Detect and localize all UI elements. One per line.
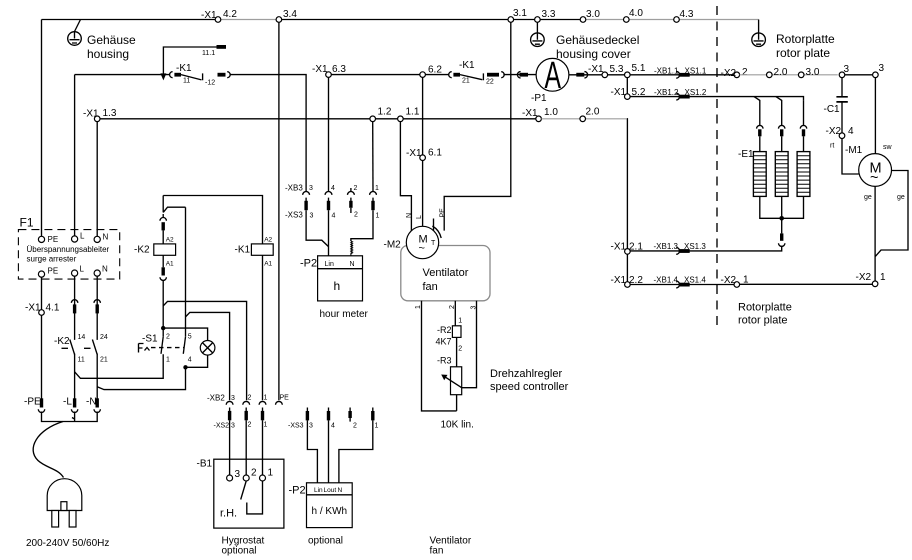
lamp [200,341,215,356]
node junction 11.1 branch [160,73,166,80]
contactor K2 main contact 24-21 [92,340,97,355]
wire XB3:4 from 6.3 [328,77,330,191]
svg-text:rotor plate: rotor plate [738,315,788,327]
node 3.1 [508,17,514,23]
svg-text:3: 3 [231,423,235,430]
svg-text:N: N [406,213,413,218]
connector -XB1.4/XS1.4 [676,281,679,288]
svg-text:1.2: 1.2 [378,107,392,118]
wire left PE drop from top rail [41,20,43,237]
node 4.0 [624,17,630,23]
wire K1-11 row [75,75,307,191]
hygrostat -B1 box [214,459,284,528]
svg-text:3.0: 3.0 [586,9,600,20]
wire fan pin3 to R3 wiper [462,301,477,388]
terminal -X1:5.1 [625,72,631,78]
svg-text:-X2: -X2 [826,126,842,137]
svg-text:2: 2 [354,185,358,192]
ground Rotorplatte rotor plate [758,20,760,33]
svg-text:200-240V 50/60Hz: 200-240V 50/60Hz [26,538,109,549]
svg-text:6.3: 6.3 [332,64,346,75]
hour meter -P2 [318,256,363,301]
terminal -X2:4 [839,133,845,139]
node 1.1 [398,116,404,122]
svg-text:-X1: -X1 [406,148,422,159]
ground Gehaeuse housing [75,20,81,32]
svg-text:N: N [350,261,355,268]
svg-text:Drehzahlregler: Drehzahlregler [490,368,562,380]
connector inline below K2 coil [162,255,164,267]
heater -E1 element 1 [753,152,766,197]
wire L branch to S1 contact 1 [75,354,164,378]
wire grey 1.0 to 2.0 to corner [541,118,627,120]
switch B1 humidity contact [241,481,247,500]
svg-text:4: 4 [331,185,335,192]
svg-text:1: 1 [880,272,886,283]
svg-text:2: 2 [449,305,456,309]
svg-text:-XS3: -XS3 [288,423,304,430]
wire N branch to lamp/S1 contact 4 [97,367,185,389]
terminal -X1:1.0 [536,116,542,122]
svg-text:fan: fan [430,546,444,557]
svg-text:4.1: 4.1 [46,303,60,314]
svg-text:3: 3 [844,64,850,75]
terminal -X1:5.3 [602,72,608,78]
terminal F1 N bottom [94,270,100,276]
wire lamp feed [163,328,207,341]
svg-text:-X2: -X2 [721,275,737,286]
node 2.0 [580,116,586,122]
svg-text:3: 3 [309,185,313,192]
kwh meter -P2 optional [307,483,353,528]
svg-text:1.3: 1.3 [103,108,117,119]
svg-text:1: 1 [743,275,749,286]
wire 2.2 row to -X2:1 to motor return [630,283,872,285]
svg-text:2: 2 [458,346,462,353]
terminal -X1:5.2 [625,94,631,100]
svg-text:XS1.2: XS1.2 [685,88,707,97]
svg-text:4: 4 [188,357,192,364]
terminal -X2:1 right [872,281,878,287]
svg-text:1: 1 [264,422,268,429]
wire sw lead to motor M1 [874,78,876,154]
svg-text:11: 11 [78,357,85,364]
wire N lead M2 from 1.1 [400,122,411,231]
terminal -X1:6.1 [420,155,426,161]
svg-text:N: N [102,265,108,274]
wire 5.1 to XB1.1 to -X2:2 [630,74,734,76]
node 3.4 [276,17,282,23]
terminal F1 PE bottom [38,271,44,277]
node 3.0 [798,72,804,78]
wire ge leads below motor M1 [875,171,908,281]
svg-text:A2: A2 [264,237,272,244]
svg-text:XS1.4: XS1.4 [684,276,706,285]
wire vertical 5.1 to 5.2 [626,78,628,94]
svg-text:3: 3 [471,306,478,310]
svg-text:3: 3 [879,63,885,74]
svg-text:11.1: 11.1 [202,50,215,57]
svg-text:L: L [416,215,423,219]
svg-text:-R2: -R2 [437,325,452,335]
terminal -X1:1.3 [94,116,100,122]
connector inline on L line [71,300,77,303]
svg-text:-XB1.1: -XB1.1 [654,67,679,76]
svg-text:6.1: 6.1 [428,148,442,159]
connector inline above K2 coil [160,218,166,221]
svg-text:3.0: 3.0 [806,67,820,78]
svg-text:11: 11 [183,78,190,85]
svg-text:rt: rt [830,143,834,150]
svg-text:22: 22 [486,79,494,86]
svg-text:PE: PE [280,395,290,402]
terminal F1 PE top [38,236,44,242]
svg-text:Rotorplatte: Rotorplatte [738,302,792,314]
connector pin after ammeter [576,73,584,77]
resistor -R2 4K7 [452,326,461,338]
wire mains bus [42,412,98,422]
connector -XS3 pins (optional meter) [306,411,309,420]
svg-text:-X1: -X1 [201,10,217,21]
wire lamp bottom to S1:4 [186,355,208,367]
wire XS3:2 stub [350,208,352,213]
svg-text:-XB2: -XB2 [207,394,225,403]
wire R3 bottom [456,395,458,411]
svg-text:-E1: -E1 [738,149,754,160]
node 3.0 [580,17,586,23]
node 2.0 [767,72,773,78]
connector pin before ammeter [517,72,520,78]
mains cord [33,422,63,478]
svg-text:-M1: -M1 [845,145,863,156]
relay coil -K2 [154,244,176,255]
svg-text:-X1: -X1 [588,64,604,75]
svg-text:~: ~ [870,170,878,186]
wire XS3:3 to hour meter Lin [306,210,328,246]
wire XS3:1 to hour meter N (with coil squiggle) [351,210,373,241]
terminal B1:2 [243,475,249,481]
connector -XB1.1/XS1.1 [676,71,679,78]
fan enclosure box [401,246,490,301]
svg-text:1.1: 1.1 [406,107,420,118]
wire XS3:1 to kwh meter N [339,420,373,482]
svg-text:F1: F1 [20,216,34,230]
svg-text:-PE: -PE [24,397,41,408]
terminal F1 L top [72,236,78,242]
node 4.3 [674,17,680,23]
svg-text:2: 2 [248,422,252,429]
terminal -X1:2.2 [625,282,631,288]
svg-text:Überspannungsableiter: Überspannungsableiter [27,245,110,254]
svg-text:-P2: -P2 [289,485,306,497]
wire 5.2 row to heater [630,97,803,101]
terminal F1 L bottom [72,270,78,276]
svg-text:3: 3 [309,423,313,430]
svg-text:5.1: 5.1 [632,63,646,74]
svg-text:-X1: -X1 [611,242,627,253]
connector -XS2 pins [230,408,263,412]
mains plug [47,479,82,511]
terminal -X1:2.1 [625,249,631,255]
svg-text:sw: sw [883,144,893,151]
wire PE lead M2 from node 3.1 [444,22,511,230]
switch S1 contact 5-4 [183,337,185,354]
svg-text:2: 2 [166,334,170,341]
svg-text:-XB1.4: -XB1.4 [654,276,679,285]
svg-text:2.0: 2.0 [586,107,600,118]
wire K2 A1 down to S1 [162,281,164,337]
ammeter -P1 [536,58,569,91]
svg-text:1: 1 [166,357,170,364]
svg-text:A: A [545,55,562,97]
svg-text:PE: PE [440,208,447,218]
svg-text:1.0: 1.0 [544,107,558,118]
wire XB3:2 stub [350,188,352,192]
svg-text:2.1: 2.1 [629,242,643,253]
wire S1 contact 5 riser from K2 A2 branch [185,207,187,337]
wire N line from 1.3 down [96,122,98,399]
wire XS3:4 to hour meter Lin [328,210,330,256]
wire top rail grey segment 3.0-4.3-corner [583,19,759,21]
wire contact to ammeter connector [503,74,536,76]
svg-text:2: 2 [353,423,357,430]
svg-text:fan: fan [423,281,438,293]
terminal F1 N top [94,236,100,242]
wire grey -X2:2 to 3 [740,74,838,76]
wire fan pin1 down [422,301,457,411]
svg-text:-XS3: -XS3 [285,211,303,220]
svg-text:ge: ge [864,194,872,201]
svg-text:1: 1 [375,423,379,430]
svg-text:1: 1 [264,395,268,402]
wire heater to XB1.3 row [630,246,782,251]
svg-text:24: 24 [100,334,108,341]
svg-text:-XS2: -XS2 [214,423,230,430]
terminal 11.1 spade [217,45,227,49]
terminal -X1:6.3 [326,72,332,78]
wire XS2 pins down to B1 [230,420,263,475]
svg-text:-X1: -X1 [83,109,99,120]
svg-text:-K2: -K2 [134,245,150,256]
dashed partition line [716,6,718,326]
terminal -X2:1 left [734,282,740,288]
svg-text:-C1: -C1 [824,104,841,115]
node heater bus junction [779,216,784,221]
svg-text:4: 4 [848,126,854,137]
wire 11.1 spade branch [163,47,216,75]
svg-text:-K1: -K1 [459,60,475,71]
svg-text:-12: -12 [205,80,215,87]
wire K2/K1 coil A2 supply rail [163,196,262,244]
svg-text:-S1: -S1 [142,334,158,345]
contactor K1 aux contact 21-22 [449,72,452,78]
svg-text:housing cover: housing cover [556,47,631,61]
connector -XB1.2/XS1.2 [676,93,679,100]
wire XS3:4 to kwh meter Lout [328,420,330,482]
svg-text:rotor plate: rotor plate [776,46,830,60]
svg-text:14: 14 [78,334,86,341]
svg-text:A1: A1 [264,261,272,268]
svg-text:-B1: -B1 [197,459,213,470]
switch S1 contact 2-1 [161,337,163,354]
wire L line from K1 row corner down [74,75,76,399]
svg-text:PE: PE [48,235,59,244]
terminal B1:1 [260,475,266,481]
svg-text:4.0: 4.0 [629,8,643,19]
wire 1.3 row [100,118,536,120]
svg-text:3.3: 3.3 [542,9,556,20]
svg-text:21: 21 [462,78,470,85]
svg-text:-M2: -M2 [384,240,402,251]
svg-text:XS1.3: XS1.3 [684,242,706,251]
svg-text:3.1: 3.1 [513,8,527,19]
svg-text:L: L [80,232,85,241]
svg-text:-X1: -X1 [522,108,538,119]
svg-text:2: 2 [742,67,748,78]
wire ammeter to 5.3 [569,74,625,76]
svg-text:N: N [338,487,343,494]
wire heater drop 2 [776,97,782,126]
wire heater drop 3 [803,100,805,125]
capacitor -C1 [841,78,843,97]
svg-text:A1: A1 [166,261,174,268]
svg-text:~: ~ [419,243,425,255]
svg-text:4.2: 4.2 [223,9,237,20]
svg-text:PE: PE [48,267,59,276]
svg-text:Rotorplatte: Rotorplatte [776,32,835,46]
svg-text:-K2: -K2 [54,336,70,347]
ground Gehaeusedeckel housing cover [536,22,538,33]
svg-text:5.3: 5.3 [610,64,624,75]
wire PE drop 3.4 to XB2:PE [278,22,280,400]
svg-text:4.3: 4.3 [680,9,694,20]
node 3 (motor branch) [873,72,879,78]
svg-text:4: 4 [332,213,336,220]
svg-text:-K1: -K1 [235,245,251,256]
wire S1:5 rail to XB2:3 [186,312,230,400]
svg-text:-X1: -X1 [25,303,41,314]
wire rt lead to motor M1 [842,139,859,175]
svg-text:L: L [80,265,85,274]
svg-text:h: h [334,279,341,293]
svg-text:-XB1.3: -XB1.3 [654,242,679,251]
svg-text:2: 2 [354,212,358,219]
thermal contact T stub and arc at M2 [433,219,435,231]
connector pins above heater [757,125,763,128]
svg-text:h / KWh: h / KWh [312,506,348,517]
svg-text:-K1: -K1 [176,63,192,74]
svg-text:optional: optional [308,536,343,547]
wire heater drop 1 [754,97,760,126]
node S1:4 junction [183,365,187,369]
svg-text:3: 3 [235,469,241,480]
svg-text:housing: housing [87,47,129,61]
svg-text:T: T [431,240,436,247]
svg-text:r.H.: r.H. [220,508,237,520]
svg-text:Gehäusedeckel: Gehäusedeckel [556,33,639,47]
svg-text:speed controller: speed controller [490,381,569,393]
wire heater bottoms to bus [760,196,804,233]
wire fan pin2 to R2 [454,301,456,326]
svg-text:hour meter: hour meter [320,309,369,320]
svg-text:N: N [103,233,109,242]
connector -XB1.3/XS1.3 [676,248,679,255]
svg-text:3: 3 [310,213,314,220]
heater -E1 element 2 [775,152,788,197]
heater -E1 element 3 [797,152,810,197]
svg-text:-L: -L [63,397,72,408]
wire corner down to 2.1 [626,119,629,249]
wire XS3:3 to kwh meter Lin [307,420,317,482]
svg-text:-P1: -P1 [531,93,547,104]
svg-text:Lin: Lin [325,261,334,268]
svg-text:-N: -N [86,397,97,408]
terminal -X2:2 [734,72,740,78]
wire vertical 2.1 to 2.2 [626,254,628,282]
svg-text:ge: ge [897,194,905,201]
svg-text:A2: A2 [166,237,174,244]
wire XS3:2 stub (optional meter) [349,418,351,422]
svg-text:Gehäuse: Gehäuse [87,33,136,47]
terminal -X1:4.2 [215,17,221,23]
wire K1 A1 down to XB2:1 [262,255,264,400]
svg-text:3: 3 [231,395,235,402]
svg-text:1: 1 [376,213,380,220]
node 6.2 [420,72,426,78]
contactor K1 aux contact 11-12 [170,72,173,78]
svg-text:1: 1 [268,468,274,479]
svg-text:Lout: Lout [324,487,337,494]
wire L lead M2 from 6.2 [422,77,424,226]
svg-text:XS1.1: XS1.1 [685,67,707,76]
svg-text:2: 2 [248,395,252,402]
wire 3 to 3 black [845,74,873,76]
wire XB3:1 from 1.2 [372,122,374,192]
surge arrester F1 dashed box [18,230,119,280]
wire top PE rail grey segment 4.2-3.4 [218,19,279,21]
node 3.3 [535,17,541,23]
motor -M1 [859,154,892,187]
svg-text:21: 21 [100,357,108,364]
node 1.2 [370,116,376,122]
connector inline on N line [94,300,100,303]
svg-text:5: 5 [188,334,192,341]
svg-text:Ventilator: Ventilator [423,267,469,279]
svg-text:2.0: 2.0 [774,67,788,78]
node 3 (capacitor branch) [839,72,845,78]
connector pin below heater [780,233,783,240]
motor -M2 [406,226,438,258]
svg-text:-X2: -X2 [856,272,872,283]
svg-text:-X1: -X1 [611,275,627,286]
svg-text:2: 2 [251,468,257,479]
svg-text:4K7: 4K7 [436,337,452,347]
svg-text:Lin: Lin [314,487,323,494]
svg-text:-XB1.2: -XB1.2 [654,88,679,97]
svg-text:4: 4 [331,423,335,430]
wire R2 to R3 [456,337,458,366]
relay coil -K1 [251,244,273,255]
svg-text:-XB3: -XB3 [285,184,303,193]
svg-text:-X2: -X2 [721,68,737,79]
svg-text:-P2: -P2 [300,258,317,270]
wire K2-A1 rail to XB2:2 [163,301,246,400]
terminal B1:3 [227,475,233,481]
svg-text:3.4: 3.4 [283,9,297,20]
node S1:2 junction [161,326,165,330]
svg-text:6.2: 6.2 [428,65,442,76]
svg-text:-X1: -X1 [611,87,627,98]
